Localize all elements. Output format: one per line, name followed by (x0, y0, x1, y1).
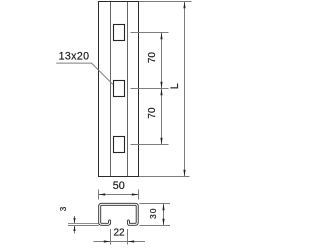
extension line 50 right (138, 190, 140, 200)
dimension line 3 lower part (74, 226, 76, 234)
extension line 30 bottom (140, 225, 171, 227)
arrow up at slot1 (160, 33, 162, 40)
svg-text:70: 70 (147, 107, 158, 119)
arrow left-pointing (22 right) (128, 240, 135, 242)
arrow up at rail top (L) (183, 2, 185, 9)
extension line slot1 center (131, 32, 169, 34)
dimension line 3 upper part (74, 216, 76, 223)
svg-text:70: 70 (147, 52, 158, 64)
slot 1 (13x20) (114, 25, 125, 41)
extension line 22 left (110, 229, 112, 245)
dimension line 30 (163, 204, 165, 226)
extension line 22 right (127, 229, 129, 245)
svg-text:50: 50 (113, 180, 125, 192)
extension line slot3 center (131, 144, 169, 146)
svg-text:L: L (169, 83, 181, 89)
extension line 50 left (98, 190, 100, 200)
rail fold line right (127, 2, 129, 176)
arrow up at slot2 (160, 89, 162, 96)
cross-section profile (double-line strut channel) (100, 204, 138, 224)
arrow down (30) (162, 219, 164, 226)
extension line slot2 center (131, 88, 169, 90)
arrow down at slot2 (160, 82, 162, 89)
extension lines 3 (flange thickness, to left) (68, 222, 99, 224)
dimension line 70 (vertical) (161, 33, 163, 145)
wire: rail bottom edge extension (L dimension, bottom) (139, 176, 190, 178)
dimension line L (vertical, far right) (184, 2, 186, 177)
wire: rail top edge extension (L dimension, top) (139, 1, 192, 3)
arrow down at slot3 (160, 138, 162, 145)
rail fold line left (110, 2, 112, 176)
arrow up (30) (162, 204, 164, 211)
arrow up (3) (73, 226, 75, 232)
slot 3 (13x20) (114, 137, 125, 153)
rail front view outline (99, 2, 139, 177)
extension line 30 top (140, 203, 171, 205)
svg-text:13x20: 13x20 (59, 51, 90, 63)
leader line for 13x20 (56, 63, 113, 84)
svg-text:3: 3 (59, 206, 68, 211)
dimension line 50 (99, 194, 139, 196)
arrow down at rail bottom (L) (183, 170, 185, 177)
svg-text:30: 30 (148, 208, 158, 219)
arrow left (50) (99, 193, 106, 195)
slot 2 (13x20) (114, 81, 125, 97)
dimension line 22 (94, 241, 146, 243)
arrow down (3) (73, 218, 75, 224)
svg-text:22: 22 (113, 228, 125, 239)
arrow right (50) (132, 193, 139, 195)
arrow right-pointing (22 left) (104, 240, 111, 242)
